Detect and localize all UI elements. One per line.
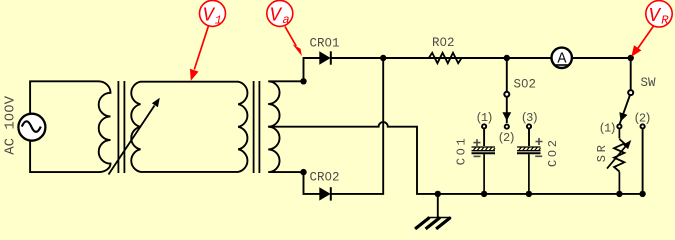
svg-text:(2): (2)	[634, 111, 651, 125]
svg-text:SW: SW	[641, 76, 657, 90]
resistor R02	[429, 53, 462, 63]
node T2 top lead	[300, 78, 306, 84]
node T2 bottom lead	[300, 169, 306, 175]
svg-text:C01: C01	[455, 136, 469, 166]
node C01 bottom	[481, 191, 487, 197]
wire	[572, 58, 630, 90]
C02 polarity +	[536, 138, 543, 145]
node SW branch	[628, 55, 634, 61]
svg-text:1: 1	[215, 13, 222, 27]
variac winding	[131, 82, 247, 172]
wire	[331, 57, 551, 59]
wire center tap with hop	[268, 122, 642, 194]
svg-text:R: R	[661, 13, 669, 27]
T2 secondary winding	[268, 81, 303, 172]
capacitor C02	[517, 147, 541, 194]
ground	[415, 218, 451, 229]
switch S02	[482, 92, 531, 129]
label Va	[267, 0, 302, 56]
wire	[331, 58, 383, 194]
wire	[483, 129, 485, 146]
node SR bottom	[616, 191, 622, 197]
variac wiper arrow	[109, 106, 155, 175]
svg-text:CR01: CR01	[310, 36, 340, 50]
svg-text:(1): (1)	[476, 111, 493, 125]
label VR	[631, 1, 672, 57]
node junction dots	[300, 55, 646, 197]
diode CR02	[319, 187, 331, 200]
node ground junction	[435, 191, 441, 197]
svg-text:(1): (1)	[599, 121, 616, 135]
C02 polarity -	[535, 155, 542, 157]
transformer core T1	[118, 81, 124, 173]
diode CR01	[319, 51, 331, 64]
capacitor C01	[472, 147, 496, 194]
wire	[304, 172, 320, 194]
svg-text:V: V	[203, 5, 216, 27]
wire	[506, 58, 508, 92]
T1 primary winding	[99, 81, 111, 172]
wire	[30, 81, 98, 113]
ground stub	[437, 194, 439, 217]
svg-text:V: V	[649, 5, 662, 27]
node C02 bottom	[526, 191, 532, 197]
zero glyph dot masks	[7, 40, 553, 177]
transformer core T2	[254, 81, 260, 173]
C01 polarity -	[474, 155, 481, 157]
svg-text:R02: R02	[432, 36, 455, 50]
variac wiper arrowhead	[152, 98, 160, 107]
svg-text:(3): (3)	[521, 111, 538, 125]
svg-text:V: V	[270, 5, 283, 27]
wire	[528, 129, 530, 146]
wire	[304, 58, 320, 81]
svg-text:(2): (2)	[498, 131, 515, 145]
AC source circle	[18, 114, 45, 141]
svg-text:CR02: CR02	[310, 170, 340, 184]
svg-text:AC 100V: AC 100V	[3, 95, 19, 154]
label V1	[190, 0, 226, 80]
SR arrowhead	[623, 140, 631, 149]
rheostat SR	[607, 129, 627, 194]
svg-text:SR: SR	[595, 142, 609, 162]
node rectifier output	[380, 55, 386, 61]
node bus right end	[639, 191, 645, 197]
svg-text:C02: C02	[546, 137, 560, 167]
wire	[642, 129, 644, 194]
node S02 branch	[504, 55, 510, 61]
ammeter U1	[552, 48, 572, 68]
AC sine symbol	[22, 121, 41, 132]
svg-text:a: a	[283, 13, 290, 27]
switch SW	[617, 90, 644, 128]
wire	[30, 141, 98, 172]
C01 polarity +	[474, 139, 481, 146]
svg-text:S02: S02	[514, 78, 537, 92]
